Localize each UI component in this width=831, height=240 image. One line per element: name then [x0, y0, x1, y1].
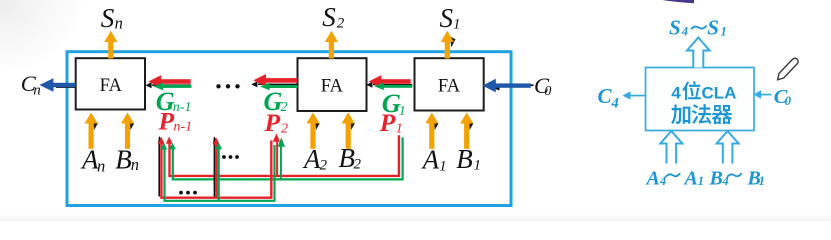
- svg-text:4: 4: [659, 174, 666, 188]
- svg-text:n: n: [33, 82, 41, 98]
- svg-text:4: 4: [681, 24, 688, 38]
- svg-text:0: 0: [785, 94, 792, 108]
- svg-text:1: 1: [698, 174, 704, 188]
- svg-text:1: 1: [759, 174, 765, 188]
- svg-text:B: B: [709, 167, 723, 189]
- svg-text:S: S: [669, 15, 681, 39]
- svg-text:1: 1: [399, 104, 406, 119]
- svg-text:S: S: [440, 3, 454, 33]
- svg-text:S: S: [707, 15, 719, 39]
- svg-text:n-1: n-1: [174, 120, 193, 135]
- svg-text:2: 2: [320, 158, 328, 174]
- svg-text:1: 1: [721, 24, 727, 38]
- svg-text:FA: FA: [321, 76, 344, 96]
- svg-text:S: S: [101, 3, 115, 33]
- svg-text:1: 1: [396, 121, 403, 136]
- svg-text:A: A: [683, 167, 698, 189]
- svg-text:4: 4: [611, 95, 619, 111]
- svg-text:n: n: [131, 155, 139, 174]
- svg-text:P: P: [158, 106, 175, 135]
- svg-text:n: n: [97, 156, 105, 175]
- svg-text:A: A: [645, 167, 660, 189]
- svg-text:A: A: [302, 144, 321, 174]
- svg-text:P: P: [379, 108, 396, 137]
- svg-text:4: 4: [671, 83, 681, 102]
- svg-text:1: 1: [453, 16, 461, 32]
- svg-text:FA: FA: [438, 76, 461, 96]
- svg-text:P: P: [264, 108, 281, 137]
- svg-text:CLA: CLA: [702, 83, 737, 102]
- svg-text:B: B: [115, 144, 132, 174]
- svg-text:2: 2: [281, 100, 288, 115]
- svg-text:1: 1: [474, 157, 482, 173]
- svg-text:A: A: [421, 144, 440, 174]
- svg-text:2: 2: [281, 121, 288, 136]
- svg-text:FA: FA: [100, 76, 123, 96]
- svg-text:2: 2: [354, 157, 362, 173]
- svg-text:2: 2: [337, 15, 345, 31]
- svg-text:0: 0: [544, 84, 551, 99]
- svg-text:n: n: [115, 14, 123, 33]
- svg-text:n-1: n-1: [173, 100, 192, 115]
- svg-text:B: B: [456, 144, 473, 174]
- svg-text:1: 1: [439, 158, 447, 174]
- svg-text:S: S: [322, 2, 336, 32]
- svg-text:C: C: [598, 84, 613, 108]
